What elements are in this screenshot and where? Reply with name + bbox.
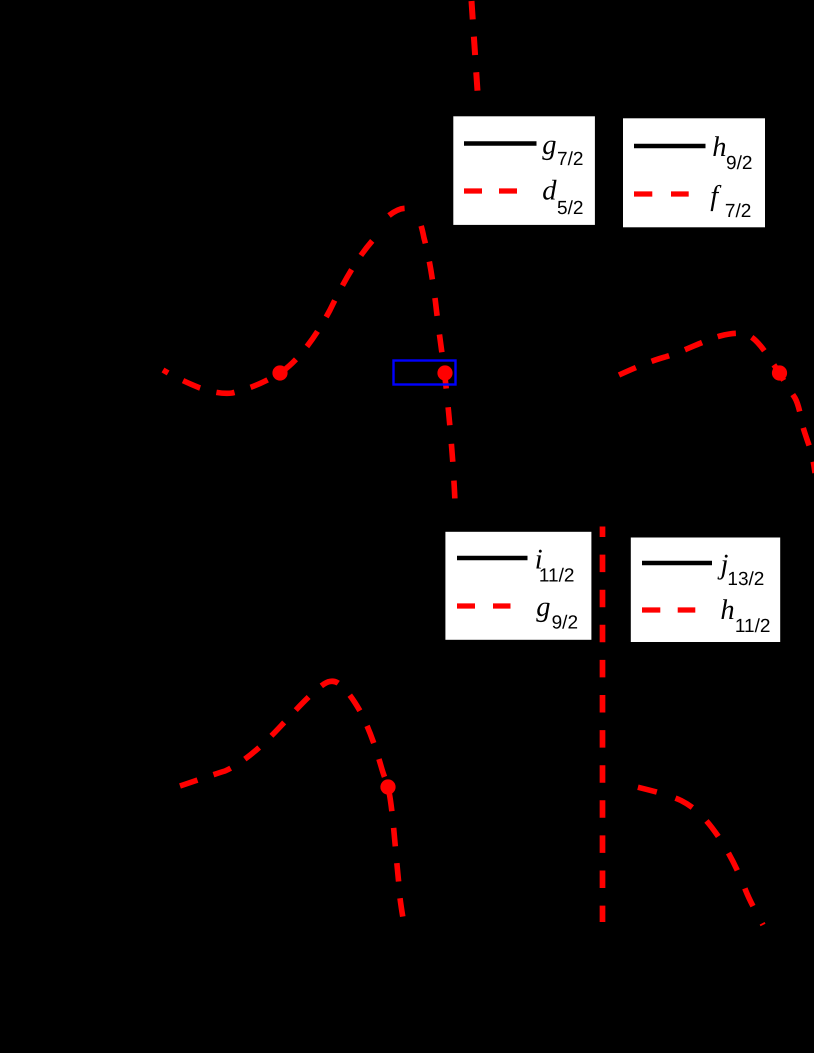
legend 1 red dashed line sample bbox=[464, 188, 482, 193]
marker dot on curve A left bbox=[272, 365, 287, 380]
svg-text:h: h bbox=[720, 595, 734, 626]
svg-text:7/2: 7/2 bbox=[725, 201, 751, 222]
curve A: d5/2 resonance curve, top-left bbox=[163, 240, 373, 393]
svg-text:7/2: 7/2 bbox=[557, 149, 583, 170]
svg-text:5/2: 5/2 bbox=[557, 198, 583, 219]
legend 1 solid black line sample bbox=[464, 141, 537, 146]
curve A descent after apex bbox=[389, 208, 416, 215]
legend 2 red dashed line sample bbox=[634, 191, 652, 196]
legend box 2 (h9/2 / f7/2) bbox=[623, 118, 765, 227]
legend box 3 (i11/2 / g9/2) bbox=[445, 532, 591, 640]
legend box 1 (g7/2 / d5/2) bbox=[453, 116, 595, 225]
marker dot on curve A in rectangle bbox=[437, 365, 452, 380]
curve C: g9/2 bottom-left bbox=[180, 681, 403, 918]
svg-text:13/2: 13/2 bbox=[727, 569, 764, 590]
marker dot on curve C bbox=[380, 779, 395, 794]
svg-text:h: h bbox=[712, 132, 726, 163]
legend 3 red dashed line sample bbox=[457, 603, 475, 608]
top vertical dashed segment bbox=[472, 1, 478, 91]
vertical dashed line bottom-right bbox=[600, 527, 606, 923]
svg-text:11/2: 11/2 bbox=[539, 566, 575, 587]
legend 4 solid black line sample bbox=[642, 561, 712, 566]
legend box 4 (j13/2 / h11/2) bbox=[631, 538, 780, 643]
legend 4 red dashed line sample bbox=[642, 607, 660, 612]
curve A steep descent through marker bbox=[416, 215, 455, 509]
svg-text:g: g bbox=[542, 130, 556, 161]
legend 3 solid black line sample bbox=[457, 556, 528, 561]
curve B: f7/2 top-right bbox=[619, 333, 814, 473]
svg-text:g: g bbox=[536, 592, 550, 623]
svg-text:9/2: 9/2 bbox=[726, 153, 752, 174]
blue rectangle bbox=[394, 361, 456, 385]
curve D: h11/2 bottom-right bbox=[635, 787, 763, 926]
marker dot on curve B bbox=[772, 365, 787, 380]
svg-text:9/2: 9/2 bbox=[552, 612, 578, 633]
svg-text:d: d bbox=[542, 176, 557, 207]
svg-text:11/2: 11/2 bbox=[735, 616, 771, 637]
legend 2 solid black line sample bbox=[634, 144, 706, 149]
